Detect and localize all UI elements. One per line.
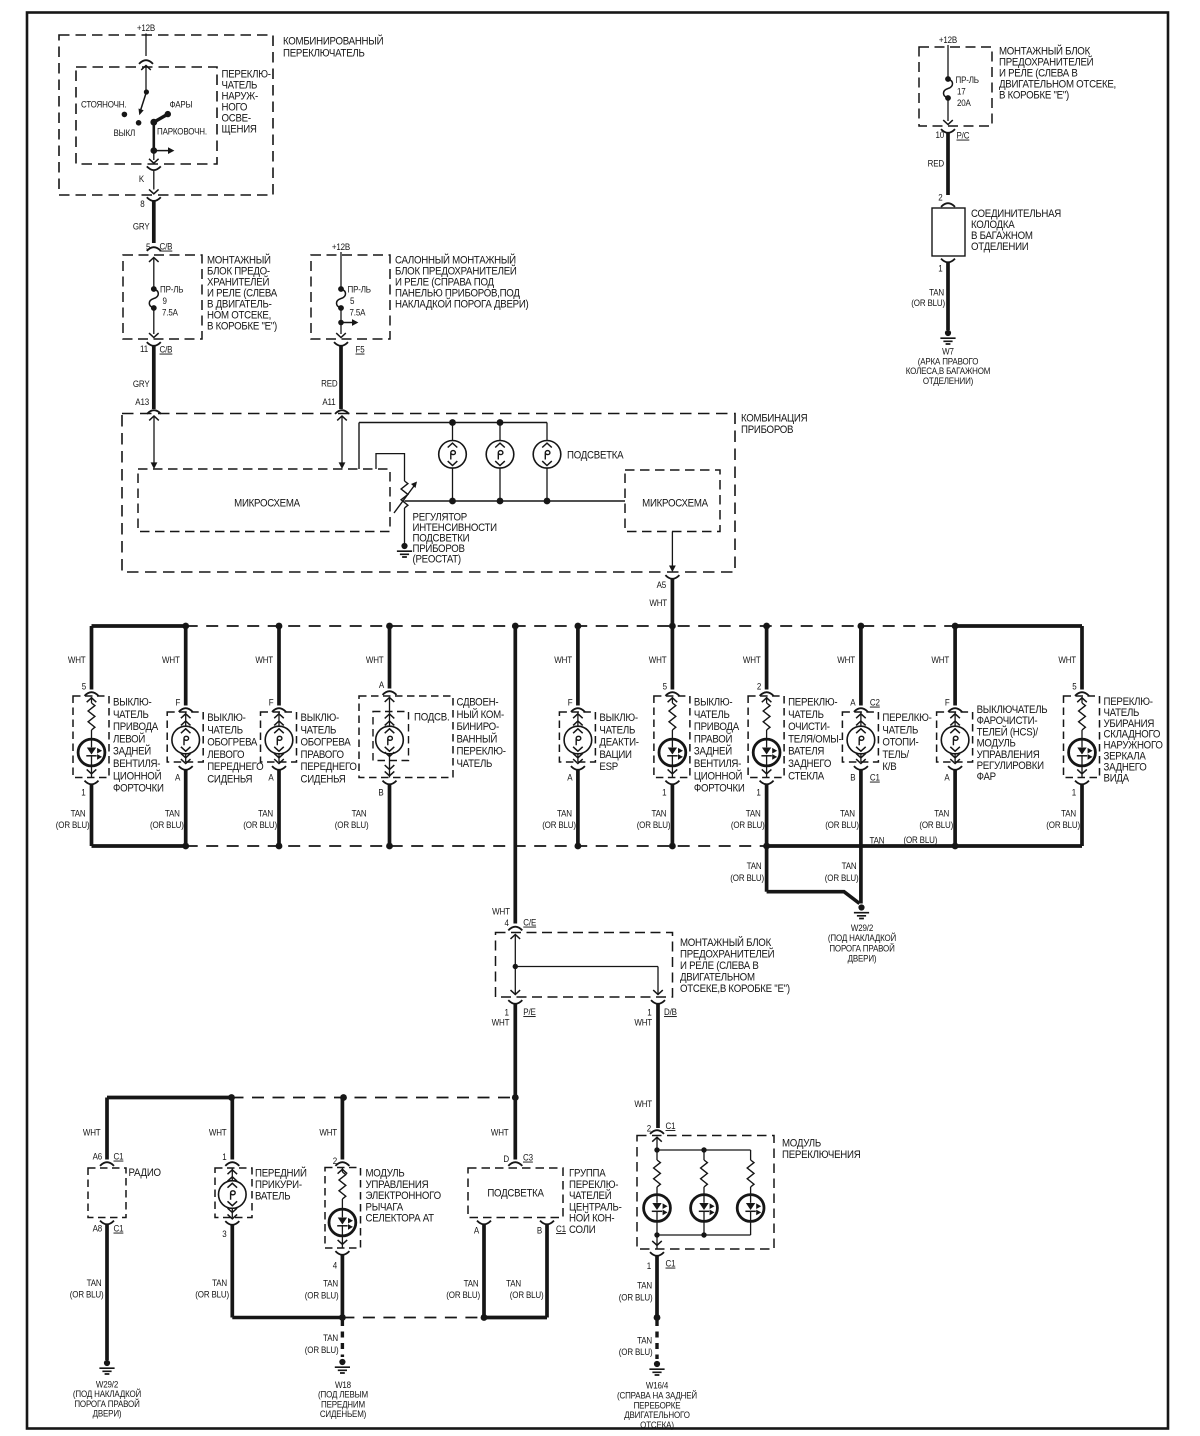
svg-text:БЛОК ПРЕДОХРАНИТЕЛЕЙ: БЛОК ПРЕДОХРАНИТЕЛЕЙ <box>395 264 517 278</box>
svg-text:СТОЯНОЧН.: СТОЯНОЧН. <box>81 99 126 110</box>
svg-text:ЧАТЕЛЬ: ЧАТЕЛЬ <box>788 709 824 721</box>
svg-text:ОБОГРЕВА: ОБОГРЕВА <box>207 737 257 749</box>
svg-text:1: 1 <box>662 787 667 798</box>
svg-text:WHT: WHT <box>649 654 667 665</box>
svg-text:ОБОГРЕВА: ОБОГРЕВА <box>301 737 351 749</box>
svg-text:TAN: TAN <box>747 861 762 872</box>
svg-text:СИДЕНЬЯ: СИДЕНЬЯ <box>301 774 346 786</box>
svg-text:ПОДСВ.: ПОДСВ. <box>414 712 449 724</box>
svg-text:ВАЦИИ: ВАЦИИ <box>599 749 631 761</box>
svg-text:КОЛОДКА: КОЛОДКА <box>971 220 1015 232</box>
svg-text:WHT: WHT <box>491 1127 509 1138</box>
svg-text:A: A <box>175 772 180 783</box>
svg-text:В ДВИГАТЕЛЬ-: В ДВИГАТЕЛЬ- <box>207 299 272 311</box>
svg-text:A: A <box>379 679 384 690</box>
svg-text:W29/2: W29/2 <box>851 922 874 933</box>
svg-text:ФОРТОЧКИ: ФОРТОЧКИ <box>694 783 745 795</box>
svg-text:ЛЕВОЙ: ЛЕВОЙ <box>113 732 145 746</box>
svg-text:WHT: WHT <box>255 654 273 665</box>
svg-text:TAN: TAN <box>71 808 86 819</box>
svg-text:УПРАВЛЕНИЯ: УПРАВЛЕНИЯ <box>366 1179 429 1191</box>
svg-text:A: A <box>567 772 572 783</box>
svg-text:ЧАТЕЛЬ: ЧАТЕЛЬ <box>113 709 149 721</box>
svg-text:(OR BLU): (OR BLU) <box>195 1289 229 1300</box>
svg-text:И РЕЛЕ (СЛЕВА В: И РЕЛЕ (СЛЕВА В <box>999 68 1078 80</box>
svg-text:1: 1 <box>938 263 943 274</box>
svg-text:(OR BLU): (OR BLU) <box>446 1289 480 1300</box>
svg-text:СОЛИ: СОЛИ <box>569 1225 595 1237</box>
svg-text:(OR BLU): (OR BLU) <box>619 1346 653 1357</box>
svg-text:И РЕЛЕ (СЛЕВА: И РЕЛЕ (СЛЕВА <box>207 288 277 300</box>
svg-text:СИДЕНЬЕМ): СИДЕНЬЕМ) <box>320 1408 367 1419</box>
svg-text:ПОДСВЕТКА: ПОДСВЕТКА <box>487 1188 544 1200</box>
svg-text:ТЕЛЯ/ОМЫ-: ТЕЛЯ/ОМЫ- <box>788 734 841 746</box>
svg-text:5: 5 <box>82 681 87 692</box>
svg-text:1: 1 <box>1072 787 1077 798</box>
svg-text:F: F <box>175 697 180 708</box>
svg-text:+12В: +12В <box>939 34 958 45</box>
svg-text:TAN: TAN <box>637 1280 652 1291</box>
svg-text:МОНТАЖНЫЙ БЛОК: МОНТАЖНЫЙ БЛОК <box>680 935 771 949</box>
svg-text:1: 1 <box>647 1260 652 1271</box>
svg-text:ЧАТЕЛЬ: ЧАТЕЛЬ <box>457 759 493 771</box>
svg-text:ВЫКЛЮ-: ВЫКЛЮ- <box>207 713 245 725</box>
svg-text:A: A <box>474 1225 479 1236</box>
svg-text:ПЕРЕДНЕГО: ПЕРЕДНЕГО <box>301 762 357 774</box>
svg-text:7.5А: 7.5А <box>162 307 178 318</box>
svg-text:ФАР: ФАР <box>977 772 997 784</box>
svg-text:МОНТАЖНЫЙ БЛОК: МОНТАЖНЫЙ БЛОК <box>999 44 1090 58</box>
svg-text:TAN: TAN <box>557 808 572 819</box>
svg-text:ВЫКЛЮЧАТЕЛЬ: ВЫКЛЮЧАТЕЛЬ <box>977 705 1048 717</box>
svg-text:TAN: TAN <box>929 287 944 298</box>
svg-text:МИКРОСХЕМА: МИКРОСХЕМА <box>642 498 708 510</box>
svg-text:БИНИРО-: БИНИРО- <box>457 722 499 734</box>
svg-text:1: 1 <box>222 1151 227 1162</box>
svg-text:ПАНЕЛЬЮ ПРИБОРОВ,ПОД: ПАНЕЛЬЮ ПРИБОРОВ,ПОД <box>395 288 520 300</box>
svg-text:ПРЕДОХРАНИТЕЛЕЙ: ПРЕДОХРАНИТЕЛЕЙ <box>999 55 1093 69</box>
svg-text:+12В: +12В <box>332 241 351 252</box>
svg-text:(OR BLU): (OR BLU) <box>825 872 859 883</box>
svg-text:ТЕЛЬ/: ТЕЛЬ/ <box>882 749 909 761</box>
svg-text:НОМ ОТСЕКЕ,: НОМ ОТСЕКЕ, <box>207 310 271 322</box>
svg-text:4: 4 <box>505 917 510 928</box>
svg-text:9: 9 <box>163 295 168 306</box>
svg-text:A: A <box>850 697 855 708</box>
svg-text:B: B <box>378 787 383 798</box>
svg-text:B: B <box>850 772 855 783</box>
svg-text:ЗАДНЕЙ: ЗАДНЕЙ <box>694 744 732 758</box>
svg-text:РАДИО: РАДИО <box>129 1168 162 1180</box>
svg-text:ПЕРЕКЛЮ-: ПЕРЕКЛЮ- <box>222 69 271 81</box>
svg-text:P/E: P/E <box>523 1006 536 1017</box>
svg-text:ПЕРЕКЛЮ-: ПЕРЕКЛЮ- <box>569 1179 618 1191</box>
svg-text:TAN: TAN <box>840 808 855 819</box>
svg-text:(OR BLU): (OR BLU) <box>730 872 764 883</box>
svg-text:ЭЛЕКТРОННОГО: ЭЛЕКТРОННОГО <box>366 1191 442 1203</box>
svg-text:ЦЕНТРАЛЬ-: ЦЕНТРАЛЬ- <box>569 1202 622 1214</box>
svg-text:D: D <box>503 1153 509 1164</box>
svg-text:10: 10 <box>935 129 944 140</box>
svg-text:(OR BLU): (OR BLU) <box>305 1344 339 1355</box>
svg-text:TAN: TAN <box>258 808 273 819</box>
svg-text:ЩЕНИЯ: ЩЕНИЯ <box>222 124 257 136</box>
svg-text:ПРЕДОХРАНИТЕЛЕЙ: ПРЕДОХРАНИТЕЛЕЙ <box>680 947 774 961</box>
svg-text:ПЕРЕКЛЮ-: ПЕРЕКЛЮ- <box>788 697 837 709</box>
svg-text:ТЕЛЕЙ (HCS)/: ТЕЛЕЙ (HCS)/ <box>977 725 1039 739</box>
svg-text:НЫЙ КОМ-: НЫЙ КОМ- <box>457 707 504 721</box>
svg-text:(OR BLU): (OR BLU) <box>510 1289 544 1300</box>
svg-text:(OR BLU): (OR BLU) <box>542 819 576 830</box>
svg-text:A: A <box>268 772 273 783</box>
svg-text:WHT: WHT <box>1058 654 1076 665</box>
svg-text:2: 2 <box>757 681 762 692</box>
svg-text:1: 1 <box>81 787 86 798</box>
svg-text:РЫЧАГА: РЫЧАГА <box>366 1202 404 1214</box>
svg-text:ОТДЕЛЕНИИ): ОТДЕЛЕНИИ) <box>923 375 974 386</box>
svg-text:(OR BLU): (OR BLU) <box>70 1289 104 1300</box>
svg-text:ВАТЕЛЬ: ВАТЕЛЬ <box>255 1191 291 1203</box>
svg-text:WHT: WHT <box>554 654 572 665</box>
svg-text:НАРУЖ-: НАРУЖ- <box>222 91 258 103</box>
svg-text:МОДУЛЬ: МОДУЛЬ <box>366 1168 405 1180</box>
svg-text:МИКРОСХЕМА: МИКРОСХЕМА <box>234 498 300 510</box>
svg-text:TAN: TAN <box>870 835 885 846</box>
svg-text:WHT: WHT <box>492 906 510 917</box>
svg-text:TAN: TAN <box>746 808 761 819</box>
svg-text:WHT: WHT <box>837 654 855 665</box>
svg-text:TAN: TAN <box>87 1277 102 1288</box>
svg-text:5: 5 <box>350 295 355 306</box>
svg-text:ВЫКЛЮ-: ВЫКЛЮ- <box>301 713 339 725</box>
svg-text:C1: C1 <box>114 1151 124 1162</box>
svg-text:(OR BLU): (OR BLU) <box>305 1290 339 1301</box>
svg-text:ЧАТЕЛЬ: ЧАТЕЛЬ <box>207 725 243 737</box>
svg-text:ЦИОННОЙ: ЦИОННОЙ <box>694 769 742 783</box>
svg-text:КОМБИНАЦИЯ: КОМБИНАЦИЯ <box>741 413 807 425</box>
svg-text:МОНТАЖНЫЙ: МОНТАЖНЫЙ <box>207 253 271 267</box>
svg-text:TAN: TAN <box>323 1332 338 1343</box>
svg-text:В КОРОБКЕ "Е"): В КОРОБКЕ "Е") <box>999 90 1069 102</box>
svg-text:1: 1 <box>756 787 761 798</box>
svg-text:WHT: WHT <box>68 654 86 665</box>
svg-text:ЧАТЕЛЬ: ЧАТЕЛЬ <box>694 709 730 721</box>
svg-text:GRY: GRY <box>133 378 150 389</box>
svg-text:TAN: TAN <box>506 1278 521 1289</box>
svg-text:A8: A8 <box>93 1223 103 1234</box>
svg-text:ПР-ЛЬ: ПР-ЛЬ <box>160 284 184 295</box>
svg-text:D/B: D/B <box>664 1006 677 1017</box>
svg-text:ЛЕВОГО: ЛЕВОГО <box>207 749 244 761</box>
svg-text:СЕЛЕКТОРА АТ: СЕЛЕКТОРА АТ <box>366 1213 435 1225</box>
svg-text:TAN: TAN <box>212 1277 227 1288</box>
svg-text:A6: A6 <box>93 1151 103 1162</box>
svg-text:ФАРОЧИСТИ-: ФАРОЧИСТИ- <box>977 716 1038 728</box>
svg-text:(OR BLU): (OR BLU) <box>335 819 369 830</box>
svg-text:ОТСЕКА): ОТСЕКА) <box>640 1419 674 1430</box>
svg-text:TAN: TAN <box>1061 808 1076 819</box>
svg-text:ПРАВОЙ: ПРАВОЙ <box>694 732 732 746</box>
svg-text:+12В: +12В <box>137 22 156 33</box>
svg-text:WHT: WHT <box>492 1017 510 1028</box>
svg-text:ДВЕРИ): ДВЕРИ) <box>93 1408 122 1419</box>
svg-text:В БАГАЖНОМ: В БАГАЖНОМ <box>971 231 1033 243</box>
svg-text:В КОРОБКЕ "Е"): В КОРОБКЕ "Е") <box>207 321 277 333</box>
svg-text:МОДУЛЬ: МОДУЛЬ <box>977 738 1016 750</box>
svg-text:ПРИБОРОВ: ПРИБОРОВ <box>741 425 794 437</box>
svg-text:4: 4 <box>333 1260 338 1271</box>
svg-text:ПРИВОДА: ПРИВОДА <box>113 722 158 734</box>
svg-text:(OR BLU): (OR BLU) <box>825 819 859 830</box>
svg-text:ДВЕРИ): ДВЕРИ) <box>848 953 877 964</box>
svg-text:11: 11 <box>140 343 148 354</box>
svg-text:ЧАТЕЛЬ: ЧАТЕЛЬ <box>882 725 918 737</box>
svg-text:ДВИГАТЕЛЬНОМ ОТСЕКЕ,: ДВИГАТЕЛЬНОМ ОТСЕКЕ, <box>999 79 1116 91</box>
svg-text:ОТСЕКЕ,В КОРОБКЕ "Е"): ОТСЕКЕ,В КОРОБКЕ "Е") <box>680 984 790 996</box>
svg-text:2: 2 <box>938 192 943 203</box>
svg-text:ОТДЕЛЕНИИ: ОТДЕЛЕНИИ <box>971 242 1028 254</box>
svg-text:C1: C1 <box>870 772 880 783</box>
svg-text:TAN: TAN <box>934 808 949 819</box>
svg-text:ЦИОННОЙ: ЦИОННОЙ <box>113 769 161 783</box>
svg-text:К/В: К/В <box>882 762 896 774</box>
svg-text:C3: C3 <box>523 1152 533 1163</box>
svg-text:WHT: WHT <box>366 654 384 665</box>
svg-text:5: 5 <box>1072 681 1077 692</box>
svg-text:БЛОК ПРЕДО-: БЛОК ПРЕДО- <box>207 266 270 278</box>
svg-text:A: A <box>944 772 949 783</box>
svg-text:НОГО: НОГО <box>222 102 248 114</box>
svg-text:RED: RED <box>321 378 337 389</box>
svg-text:F: F <box>568 697 573 708</box>
svg-text:ПЕРЕЛКЮ-: ПЕРЕЛКЮ- <box>882 713 931 725</box>
svg-text:A13: A13 <box>135 396 149 407</box>
svg-text:WHT: WHT <box>83 1127 101 1138</box>
svg-text:ВЫКЛЮ-: ВЫКЛЮ- <box>113 697 151 709</box>
svg-text:WHT: WHT <box>162 654 180 665</box>
svg-text:TAN: TAN <box>323 1278 338 1289</box>
svg-text:ESP: ESP <box>599 762 618 774</box>
svg-text:(РЕОСТАТ): (РЕОСТАТ) <box>413 554 461 566</box>
svg-text:C/E: C/E <box>523 917 536 928</box>
svg-text:F: F <box>945 697 950 708</box>
svg-text:TAN: TAN <box>464 1278 479 1289</box>
svg-text:F: F <box>269 697 274 708</box>
svg-text:КОМБИНИРОВАННЫЙ: КОМБИНИРОВАННЫЙ <box>283 34 383 48</box>
svg-text:C/B: C/B <box>160 344 173 355</box>
svg-text:ЧАТЕЛЬ: ЧАТЕЛЬ <box>301 725 337 737</box>
svg-text:(ПОД НАКЛАДКОЙ: (ПОД НАКЛАДКОЙ <box>828 932 896 944</box>
svg-text:ДЕАКТИ-: ДЕАКТИ- <box>599 737 638 749</box>
svg-text:3: 3 <box>222 1228 227 1239</box>
svg-text:ПАРКОВОЧН.: ПАРКОВОЧН. <box>157 126 207 137</box>
svg-text:C2: C2 <box>870 697 880 708</box>
svg-text:И РЕЛЕ (СПРАВА ПОД: И РЕЛЕ (СПРАВА ПОД <box>395 277 494 289</box>
svg-text:ВАТЕЛЯ: ВАТЕЛЯ <box>788 746 824 758</box>
svg-text:(OR BLU): (OR BLU) <box>637 819 671 830</box>
svg-text:B: B <box>537 1225 542 1236</box>
svg-text:ЗАДНЕГО: ЗАДНЕГО <box>788 759 831 771</box>
svg-text:ПЕРЕДНИЙ: ПЕРЕДНИЙ <box>255 1166 307 1180</box>
svg-text:РЕГУЛИРОВКИ: РЕГУЛИРОВКИ <box>977 761 1044 773</box>
svg-text:C1: C1 <box>114 1223 124 1234</box>
svg-text:ПЕРЕКЛЮ-: ПЕРЕКЛЮ- <box>457 746 506 758</box>
svg-text:P/C: P/C <box>957 130 970 141</box>
svg-text:ПРИВОДА: ПРИВОДА <box>694 722 739 734</box>
svg-text:(OR BLU): (OR BLU) <box>619 1292 653 1303</box>
svg-text:(OR BLU): (OR BLU) <box>919 819 953 830</box>
svg-text:ЧАТЕЛЬ: ЧАТЕЛЬ <box>599 725 635 737</box>
svg-text:УПРАВЛЕНИЯ: УПРАВЛЕНИЯ <box>977 749 1040 761</box>
svg-text:СТЕКЛА: СТЕКЛА <box>788 771 824 783</box>
svg-text:TAN: TAN <box>352 808 367 819</box>
svg-text:C1: C1 <box>666 1258 676 1269</box>
svg-text:WHT: WHT <box>634 1098 652 1109</box>
svg-text:ЧАТЕЛЬ: ЧАТЕЛЬ <box>222 80 258 92</box>
svg-text:ОСВЕ-: ОСВЕ- <box>222 113 251 125</box>
svg-text:ПР-ЛЬ: ПР-ЛЬ <box>348 284 372 295</box>
svg-text:ХРАНИТЕЛЕЙ: ХРАНИТЕЛЕЙ <box>207 275 269 289</box>
svg-text:C1: C1 <box>666 1120 676 1131</box>
svg-text:ОТОПИ-: ОТОПИ- <box>882 737 918 749</box>
svg-text:И РЕЛЕ (СЛЕВА В: И РЕЛЕ (СЛЕВА В <box>680 961 759 973</box>
svg-text:ДВИГАТЕЛЬНОМ: ДВИГАТЕЛЬНОМ <box>680 972 755 984</box>
svg-text:(OR BLU): (OR BLU) <box>56 819 90 830</box>
svg-text:ПОДСВЕТКА: ПОДСВЕТКА <box>567 450 624 462</box>
svg-text:ПРАВОГО: ПРАВОГО <box>301 749 344 761</box>
svg-text:GRY: GRY <box>133 221 150 232</box>
svg-text:RED: RED <box>928 158 944 169</box>
svg-text:20А: 20А <box>957 97 971 108</box>
svg-text:K: K <box>139 173 144 184</box>
svg-text:2: 2 <box>647 1123 652 1134</box>
svg-text:ПЕРЕКЛЮЧЕНИЯ: ПЕРЕКЛЮЧЕНИЯ <box>782 1150 860 1162</box>
svg-text:ФОРТОЧКИ: ФОРТОЧКИ <box>113 783 164 795</box>
svg-text:ФАРЫ: ФАРЫ <box>170 99 193 110</box>
svg-text:ЧАТЕЛЕЙ: ЧАТЕЛЕЙ <box>569 1188 611 1202</box>
svg-text:(OR BLU): (OR BLU) <box>150 819 184 830</box>
svg-text:WHT: WHT <box>634 1017 652 1028</box>
svg-text:ЗАДНЕЙ: ЗАДНЕЙ <box>113 744 151 758</box>
svg-text:ВАННЫЙ: ВАННЫЙ <box>457 732 498 746</box>
svg-text:НОЙ КОН-: НОЙ КОН- <box>569 1211 614 1225</box>
svg-text:(OR BLU): (OR BLU) <box>731 819 765 830</box>
svg-text:СОЕДИНИТЕЛЬНАЯ: СОЕДИНИТЕЛЬНАЯ <box>971 209 1061 221</box>
svg-text:ВЫКЛЮ-: ВЫКЛЮ- <box>599 713 637 725</box>
svg-text:(OR BLU): (OR BLU) <box>243 819 277 830</box>
svg-text:ПОРОГА ПРАВОЙ: ПОРОГА ПРАВОЙ <box>829 942 894 954</box>
svg-text:ПР-ЛЬ: ПР-ЛЬ <box>956 74 980 85</box>
svg-text:5: 5 <box>663 681 668 692</box>
svg-text:A11: A11 <box>322 396 335 407</box>
svg-text:TAN: TAN <box>637 1335 652 1346</box>
svg-text:ВЕНТИЛЯ-: ВЕНТИЛЯ- <box>694 759 741 771</box>
svg-text:WHT: WHT <box>649 597 667 608</box>
svg-text:A5: A5 <box>657 579 667 590</box>
svg-text:WHT: WHT <box>931 654 949 665</box>
svg-text:ГРУППА: ГРУППА <box>569 1168 606 1180</box>
svg-text:TAN: TAN <box>652 808 667 819</box>
svg-text:(OR BLU): (OR BLU) <box>904 834 938 845</box>
svg-text:ВИДА: ВИДА <box>1104 773 1130 785</box>
svg-text:СДВОЕН-: СДВОЕН- <box>457 697 499 709</box>
svg-text:ОЧИСТИ-: ОЧИСТИ- <box>788 722 830 734</box>
svg-text:8: 8 <box>140 198 145 209</box>
svg-text:ПРИКУРИ-: ПРИКУРИ- <box>255 1180 302 1192</box>
svg-text:ВЫКЛ: ВЫКЛ <box>114 127 136 138</box>
svg-text:C1: C1 <box>556 1223 566 1234</box>
svg-text:СИДЕНЬЯ: СИДЕНЬЯ <box>207 774 252 786</box>
svg-text:WHT: WHT <box>209 1127 227 1138</box>
svg-text:F5: F5 <box>356 344 365 355</box>
svg-text:TAN: TAN <box>165 808 180 819</box>
svg-text:САЛОННЫЙ МОНТАЖНЫЙ: САЛОННЫЙ МОНТАЖНЫЙ <box>395 253 516 267</box>
svg-text:ПЕРЕКЛЮЧАТЕЛЬ: ПЕРЕКЛЮЧАТЕЛЬ <box>283 48 365 60</box>
svg-text:TAN: TAN <box>842 861 857 872</box>
svg-text:17: 17 <box>957 86 966 97</box>
svg-text:ВЕНТИЛЯ-: ВЕНТИЛЯ- <box>113 759 160 771</box>
svg-text:(OR BLU): (OR BLU) <box>911 297 945 308</box>
svg-text:НАКЛАДКОЙ ПОРОГА ДВЕРИ): НАКЛАДКОЙ ПОРОГА ДВЕРИ) <box>395 297 528 311</box>
svg-text:7.5А: 7.5А <box>350 307 366 318</box>
svg-text:ПЕРЕДНЕГО: ПЕРЕДНЕГО <box>207 762 263 774</box>
svg-text:МОДУЛЬ: МОДУЛЬ <box>782 1138 821 1150</box>
svg-text:WHT: WHT <box>743 654 761 665</box>
svg-text:C/B: C/B <box>160 241 173 252</box>
svg-text:(OR BLU): (OR BLU) <box>1046 819 1080 830</box>
svg-text:ВЫКЛЮ-: ВЫКЛЮ- <box>694 697 732 709</box>
svg-text:WHT: WHT <box>319 1127 337 1138</box>
